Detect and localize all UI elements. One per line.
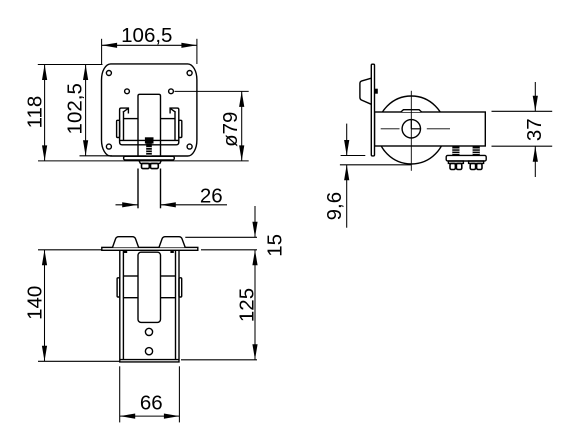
bottom flange plate (124, 156, 175, 160)
dim 15 ext top (185, 236, 257, 238)
svg-text:140: 140 (24, 286, 47, 320)
corner hole BR (187, 144, 192, 149)
svg-text:66: 66 (140, 392, 163, 415)
roller block right top (161, 275, 176, 277)
arrow 102,5 bottom (83, 140, 88, 156)
roller circle (377, 96, 445, 164)
roller block right bottom (161, 297, 176, 299)
left wheel profile (113, 237, 139, 248)
dim 66 ext right (178, 366, 180, 422)
arrow 9,6 lower (344, 165, 349, 181)
arrow 118 bottom (42, 145, 47, 161)
bolt head (black) (145, 137, 154, 143)
dim ext 102,5 bottom (80, 155, 113, 157)
horizontal centerline left (381, 128, 400, 130)
nut left washer (448, 161, 463, 163)
side tab left (117, 278, 120, 297)
arm (covers circle middle) (375, 112, 486, 146)
dim 125 ext bottom (181, 359, 257, 361)
dim 9,6 ext upper (341, 155, 366, 157)
arrow 125 bottom (252, 344, 257, 360)
black dot left (124, 250, 127, 253)
arrow ø79 bottom (239, 145, 244, 161)
roller top left segment (124, 118, 139, 120)
hole lower (145, 348, 152, 355)
roller block left top (123, 275, 138, 277)
dim 9,6 lower leader (346, 165, 348, 228)
stud right (black) (473, 146, 480, 155)
svg-text:118: 118 (24, 96, 47, 129)
dim 66 line (120, 415, 180, 417)
body inner bottom line (120, 359, 179, 361)
axle hole crosshair horizontal (411, 128, 420, 130)
body inner wall right (175, 250, 177, 359)
dim 9,6 lower line (340, 164, 412, 166)
arrow 106,5 left (102, 43, 118, 48)
mounting plate (102, 64, 197, 156)
stud thread lines (146, 148, 152, 155)
dim 66 ext left (119, 366, 121, 422)
dim 15 line above (254, 206, 256, 237)
arrow 26 left (122, 202, 138, 207)
dim 106,5 ext right (196, 39, 198, 64)
svg-text:106,5: 106,5 (121, 24, 172, 47)
bracket right hook chamfer (170, 108, 175, 112)
dim 37 line bottom (534, 146, 536, 177)
dim ø79 line (241, 91, 243, 160)
svg-text:9,6: 9,6 (323, 192, 346, 221)
side tab right (179, 278, 182, 297)
svg-text:15: 15 (264, 234, 287, 257)
dim 26 line left (116, 204, 138, 206)
dim 118 line (44, 65, 46, 161)
arrow 15 (252, 222, 257, 238)
shaft below nut left edge (137, 169, 139, 209)
hat bracket profile (360, 78, 371, 104)
dim 125 line (254, 250, 256, 360)
svg-text:37: 37 (523, 118, 546, 141)
corner hole TL (106, 71, 111, 76)
washer under flange (139, 161, 161, 164)
right wheel profile (159, 237, 185, 248)
black dot right (170, 250, 173, 253)
nut cell right (151, 163, 159, 168)
top plate (102, 247, 198, 250)
arrow 118 top (42, 65, 47, 81)
arrow 106,5 right (181, 43, 197, 48)
roller right edge (174, 112, 176, 140)
hole upper (145, 328, 152, 335)
arrow ø79 top (239, 91, 244, 107)
dim 140 line (44, 250, 46, 361)
arrow 125 top (252, 250, 257, 265)
dim 37 line top (534, 82, 536, 111)
roller top right segment (161, 118, 176, 120)
roller block left bottom (123, 297, 138, 299)
dim 106,5 ext left (101, 39, 103, 64)
bracket right arm hook (170, 108, 179, 140)
central shaft bar (138, 94, 161, 156)
nut right washer (469, 161, 484, 163)
dim 140 ext top (38, 249, 102, 251)
washer bar (446, 155, 486, 161)
svg-text:ø79: ø79 (219, 112, 242, 147)
horizontal centerline right (427, 128, 450, 130)
wall plate (371, 64, 374, 156)
nut right body cell 1 (470, 163, 475, 169)
axle hole crosshair vertical (410, 120, 412, 129)
arrow 140 bottom (42, 346, 47, 362)
hub bump on arm (401, 110, 422, 112)
body inner wall left (122, 250, 124, 359)
dim 15 ext bottom (201, 249, 257, 251)
svg-text:26: 26 (200, 185, 223, 208)
dim 140 ext bottom (38, 360, 120, 362)
nut left body cell 2 (456, 163, 461, 169)
stud thread lines (452, 149, 480, 154)
dim 37 ext top (492, 110, 553, 112)
dim 26 line right (160, 204, 227, 206)
arrow 9,6 upper (344, 140, 349, 156)
body outer wall (120, 250, 179, 362)
arrow 37 top (533, 96, 538, 112)
arrow 26 right (160, 202, 176, 207)
roller left edge (123, 112, 125, 140)
svg-text:102,5: 102,5 (63, 83, 86, 134)
arrow 102,5 top (83, 65, 88, 81)
bolt thread shank (black) (146, 144, 152, 157)
small hole left (125, 89, 130, 94)
stud left (black) (452, 146, 459, 155)
svg-text:125: 125 (235, 288, 258, 322)
arrow 140 top (42, 250, 47, 265)
nut right body cell 2 (477, 163, 482, 169)
nut left body cell 1 (450, 163, 455, 169)
arrow 37 bottom (533, 146, 538, 162)
dim ext top (plate top) (38, 64, 103, 66)
nut cell left (142, 163, 150, 168)
central tube (138, 252, 161, 322)
arrow 66 right (164, 414, 180, 419)
dim ext ø79 top (175, 90, 249, 92)
dim 102,5 line (85, 65, 87, 156)
arrow 66 left (120, 414, 136, 419)
small hole right (169, 89, 174, 94)
dim 37 ext bottom (492, 145, 553, 147)
corner hole TR (187, 71, 192, 76)
bracket left arm hook (120, 108, 129, 140)
black block on plate (375, 89, 378, 94)
dim ext 118/ø79 bottom (38, 160, 249, 162)
left side tab (117, 120, 120, 137)
right side tab (179, 120, 182, 137)
bracket left hook chamfer (123, 108, 128, 112)
shaft below nut right edge (160, 169, 162, 209)
vertical centerline (410, 91, 412, 171)
corner hole BL (106, 144, 111, 149)
axle hole (402, 120, 420, 138)
bracket bottom bar (120, 140, 179, 144)
dim 9,6 upper leader (346, 124, 348, 156)
dim 106,5 line (102, 44, 197, 46)
